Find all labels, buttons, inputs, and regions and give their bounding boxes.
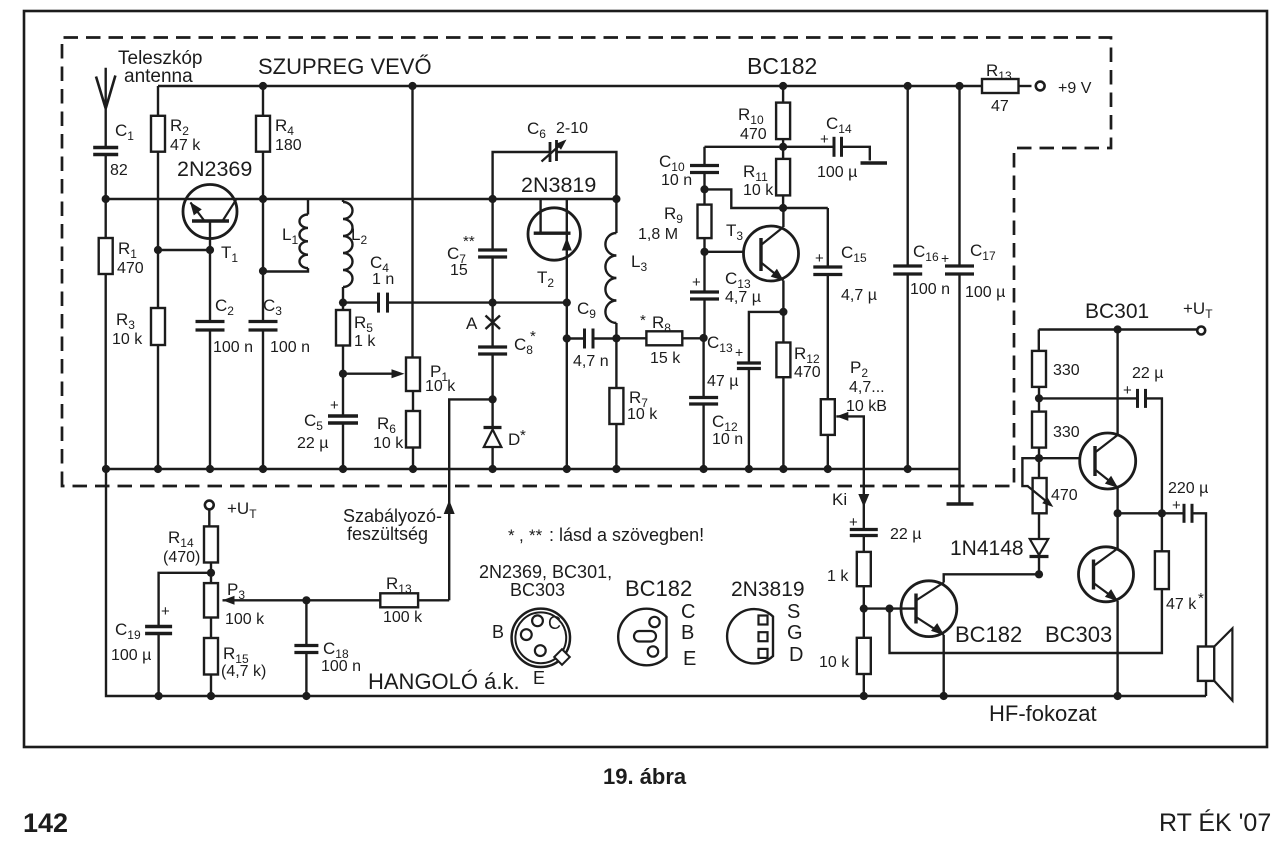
svg-text:*: *	[520, 427, 526, 444]
svg-text:S: S	[787, 601, 800, 623]
svg-text:100 n: 100 n	[213, 339, 253, 356]
svg-text:R13: R13	[386, 574, 412, 596]
ground rail	[106, 468, 960, 470]
node collector/R4	[259, 195, 267, 203]
svg-text:10 k: 10 k	[627, 406, 658, 423]
capacitor C12	[702, 338, 704, 398]
capacitor C5	[342, 374, 344, 416]
resistor R12	[776, 343, 790, 378]
wire output to 220u	[1118, 512, 1184, 514]
svg-text:22 µ: 22 µ	[1132, 365, 1163, 382]
svg-text:R13: R13	[986, 61, 1012, 83]
node rail/R10	[779, 82, 787, 90]
trimmer C6	[549, 142, 552, 162]
node base/feedback	[885, 605, 893, 613]
svg-text:82: 82	[110, 162, 128, 179]
svg-text:47 k: 47 k	[170, 137, 201, 154]
node ground rail x748	[745, 465, 753, 473]
node drain/L3	[612, 195, 620, 203]
svg-text:100 n: 100 n	[910, 281, 950, 298]
resistor 47k feedback	[890, 589, 1162, 653]
capacitor C18	[305, 600, 307, 645]
svg-text:**: **	[463, 233, 475, 250]
svg-text:P2: P2	[850, 358, 868, 380]
svg-text:4,7...: 4,7...	[849, 379, 885, 396]
node gate rail/C7	[489, 195, 497, 203]
svg-text:10 n: 10 n	[712, 431, 743, 448]
node output	[1114, 509, 1122, 517]
svg-text:HANGOLÓ á.k.: HANGOLÓ á.k.	[368, 669, 520, 694]
svg-text:Szabályozó-: Szabályozó-	[343, 506, 442, 526]
svg-text:1 k: 1 k	[354, 333, 376, 350]
arrow Ki output	[858, 494, 869, 507]
svg-text:C19: C19	[115, 620, 141, 642]
arrow regen up	[444, 500, 455, 514]
svg-text:C16: C16	[913, 242, 939, 264]
wire C10 top link	[705, 146, 784, 148]
svg-text:+UT: +UT	[227, 499, 257, 521]
svg-text:2N3819: 2N3819	[521, 173, 596, 197]
svg-text:R2: R2	[170, 116, 189, 138]
svg-text:470: 470	[794, 364, 821, 381]
terminal +UT right	[1197, 327, 1205, 335]
transistor T1 2N2369	[183, 185, 237, 239]
wire to C19	[159, 573, 211, 627]
svg-text:A: A	[466, 314, 478, 333]
svg-text:BC182: BC182	[955, 622, 1022, 647]
node ground rail x703	[700, 465, 708, 473]
svg-text:47 µ: 47 µ	[707, 373, 738, 390]
svg-text:1,8 M: 1,8 M	[638, 226, 678, 243]
svg-text:+9 V: +9 V	[1058, 80, 1092, 97]
wire P2 ground	[827, 435, 829, 469]
svg-text:220 µ: 220 µ	[1168, 480, 1208, 497]
resistor R10	[776, 103, 790, 140]
pinout BC182 case	[618, 609, 666, 666]
svg-text:*: *	[508, 526, 515, 545]
transistor BC182 driver	[901, 581, 957, 637]
node R8/C13/C12	[700, 334, 708, 342]
trimmer 470	[1038, 458, 1040, 478]
wire C15 to P2	[827, 275, 829, 400]
wire regen feed	[449, 399, 492, 600]
transistor BC301	[1080, 433, 1136, 489]
svg-text:10 kB: 10 kB	[846, 398, 887, 415]
svg-text:C3: C3	[263, 296, 282, 318]
svg-text:470: 470	[740, 126, 767, 143]
pinout 2N3819 case	[727, 609, 773, 663]
wire bottom rail	[106, 469, 1206, 696]
svg-text:E: E	[683, 648, 696, 670]
svg-text:2N2369: 2N2369	[177, 157, 252, 181]
svg-text:C10: C10	[659, 152, 685, 174]
svg-text:10 k: 10 k	[743, 182, 774, 199]
node R5/C5/wiper	[339, 370, 347, 378]
resistor R1	[104, 199, 106, 238]
node L3/R7/R8	[612, 334, 620, 342]
wire P1 wiper	[343, 373, 398, 375]
wire P3 wiper line	[223, 599, 381, 601]
node bottom rail R15	[207, 692, 215, 700]
svg-text:P3: P3	[227, 580, 245, 602]
svg-text:SZUPREG VEVŐ: SZUPREG VEVŐ	[258, 54, 432, 79]
svg-text:C6: C6	[527, 119, 546, 141]
svg-text:BC182: BC182	[625, 576, 692, 601]
svg-text:470: 470	[1051, 487, 1078, 504]
node rail/P1 feed	[408, 82, 416, 90]
node L2/R5	[339, 299, 347, 307]
svg-text:*: *	[640, 312, 646, 329]
resistor R13b 100k	[380, 593, 418, 607]
resistor R4	[262, 86, 264, 116]
node tank/C7	[489, 299, 497, 307]
transistor T2 JFET	[528, 208, 580, 260]
svg-text:4,7 µ: 4,7 µ	[841, 287, 877, 304]
capacitor C1	[93, 146, 118, 149]
svg-text:+: +	[692, 274, 701, 291]
wire +UT rail	[1039, 328, 1197, 330]
svg-text:10 k: 10 k	[112, 331, 143, 348]
svg-text:100 k: 100 k	[225, 611, 265, 628]
resistor R3	[151, 308, 165, 345]
svg-text:*: *	[1198, 590, 1204, 607]
svg-text:Ki: Ki	[832, 490, 847, 509]
capacitor C7	[491, 199, 493, 250]
wire P2 wiper Ki	[836, 416, 864, 529]
node A marker	[486, 316, 501, 330]
transistor BC303	[1079, 547, 1134, 602]
resistor R8	[616, 337, 646, 339]
node R10/R11/C14	[779, 143, 787, 151]
node T1 base	[206, 246, 214, 254]
wire driver emitter	[943, 635, 945, 696]
svg-text:R14: R14	[168, 528, 194, 550]
resistor 330 upper	[1038, 330, 1040, 351]
svg-text:1N4148: 1N4148	[950, 537, 1024, 560]
svg-text:,: ,	[519, 526, 524, 545]
svg-text:R1: R1	[118, 239, 137, 261]
wire T3 collector	[782, 208, 784, 227]
svg-text:330: 330	[1053, 362, 1080, 379]
svg-text:B: B	[681, 622, 694, 644]
potentiometer P1	[406, 358, 420, 392]
capacitor C13 4.7u	[703, 299, 705, 338]
resistor R7	[615, 338, 617, 388]
svg-text:15 k: 15 k	[650, 350, 681, 367]
svg-text:+: +	[735, 344, 743, 360]
node 1k/10k/base	[860, 605, 868, 613]
svg-text:T2: T2	[537, 268, 554, 290]
wire bootstrap right	[1146, 398, 1162, 513]
node C8/D/regen	[489, 395, 497, 403]
capacitor C4	[377, 293, 380, 313]
wire C7-C8	[491, 303, 493, 347]
svg-text:100 n: 100 n	[321, 658, 361, 675]
capacitor C17	[958, 86, 960, 266]
svg-text:(4,7 k): (4,7 k)	[221, 663, 266, 680]
inductor L1	[307, 199, 309, 215]
svg-text:B: B	[492, 622, 504, 642]
svg-text:R6: R6	[377, 414, 396, 436]
node bottom rail BC303 emitter	[1114, 692, 1122, 700]
svg-text:2N2369, BC301,: 2N2369, BC301,	[479, 562, 612, 582]
svg-text:T3: T3	[726, 221, 743, 243]
svg-text:+: +	[1123, 382, 1132, 399]
wire C6 loop	[493, 152, 549, 199]
svg-text:10 k: 10 k	[373, 435, 404, 452]
svg-text:22 µ: 22 µ	[297, 435, 328, 452]
node rail/C16	[904, 82, 912, 90]
node bottom rail drv emitter	[940, 692, 948, 700]
svg-text:D: D	[789, 644, 803, 666]
capacitor C10	[703, 173, 705, 205]
svg-text:T1: T1	[221, 243, 238, 265]
svg-text:BC182: BC182	[747, 53, 817, 79]
resistor R 10k out	[863, 609, 865, 638]
pinout TO-18 case	[512, 609, 570, 667]
node emitter/C13b	[779, 308, 787, 316]
svg-text:C13: C13	[707, 333, 733, 355]
svg-text:15: 15	[450, 262, 468, 279]
capacitor 220u	[1183, 504, 1186, 523]
svg-text:100 k: 100 k	[383, 609, 423, 626]
capacitor C13b 47u	[749, 312, 784, 363]
svg-text:R3: R3	[116, 310, 135, 332]
wire collector to C15	[783, 207, 828, 209]
terminal +9V	[1036, 82, 1045, 91]
capacitor C14	[783, 146, 834, 148]
node ground rail x907	[904, 465, 912, 473]
svg-text:+: +	[161, 603, 170, 620]
svg-text:+: +	[815, 250, 824, 267]
svg-text:10 k: 10 k	[819, 654, 850, 671]
node rail/R4	[259, 82, 267, 90]
svg-text:C2: C2	[215, 296, 234, 318]
svg-text:feszültség: feszültség	[347, 524, 428, 544]
svg-text:C13: C13	[725, 269, 751, 291]
svg-text:L3: L3	[631, 252, 647, 274]
svg-text:G: G	[787, 622, 803, 644]
svg-text:180: 180	[275, 137, 302, 154]
svg-text:C: C	[548, 613, 561, 633]
node bias/trimmer	[1035, 454, 1043, 462]
node ground rail x413	[409, 465, 417, 473]
node rail/BC301 collector	[1114, 325, 1122, 333]
transistor T3 BC182	[744, 226, 799, 281]
wire T3 emitter	[782, 281, 784, 343]
wire T3 base	[705, 251, 762, 253]
diode D*	[491, 399, 493, 428]
svg-text:470: 470	[117, 260, 144, 277]
resistor R5	[342, 303, 344, 310]
wire bootstrap	[1039, 397, 1137, 399]
resistor R14	[208, 510, 210, 527]
svg-text:R5: R5	[354, 313, 373, 335]
inductor L3	[615, 199, 617, 233]
svg-text:C5: C5	[304, 411, 323, 433]
svg-text:BC303: BC303	[1045, 622, 1112, 647]
svg-text:C17: C17	[970, 241, 996, 263]
svg-text:E: E	[533, 668, 545, 688]
svg-text:10 k: 10 k	[425, 378, 456, 395]
svg-text:C14: C14	[826, 114, 852, 136]
node R11/T3 collector	[779, 204, 787, 212]
svg-text:D: D	[508, 430, 520, 449]
node ground rail x616	[612, 465, 620, 473]
dashed RF-section boundary box	[62, 38, 1111, 487]
wire base	[158, 249, 210, 251]
svg-text:+: +	[820, 131, 829, 148]
capacitor C19	[145, 625, 172, 628]
svg-text:+: +	[849, 514, 858, 531]
wire emitter line	[106, 198, 184, 200]
terminal +UT left	[205, 501, 214, 510]
svg-text:1 n: 1 n	[372, 271, 394, 288]
wire BC301 emitter	[1116, 488, 1118, 549]
node R9/base/C13	[700, 248, 708, 256]
node L1 return	[259, 267, 267, 275]
svg-text:L2: L2	[351, 225, 367, 247]
resistor 330 lower	[1038, 398, 1040, 411]
resistor R6	[412, 391, 414, 411]
wire C9 link	[567, 337, 584, 339]
svg-text:2N3819: 2N3819	[731, 578, 805, 601]
svg-text:(470): (470)	[163, 549, 200, 566]
svg-text:100 µ: 100 µ	[111, 647, 151, 664]
svg-text:+: +	[941, 250, 949, 266]
wire BC301 base	[1039, 457, 1094, 459]
svg-text:BC301: BC301	[1085, 300, 1149, 323]
resistor R 1k	[857, 552, 871, 586]
resistor R2	[157, 86, 159, 116]
ground after C14	[842, 147, 870, 161]
svg-text:antenna: antenna	[124, 66, 193, 87]
node ground rail x492	[489, 465, 497, 473]
node 330/330/22u	[1035, 394, 1043, 402]
svg-text:330: 330	[1053, 424, 1080, 441]
node source/C9	[563, 334, 571, 342]
resistor R11	[782, 147, 784, 159]
node ground rail x343	[339, 465, 347, 473]
node C10/R9	[700, 185, 708, 193]
wire +9V to P1	[411, 86, 413, 358]
node ground rail x566	[563, 465, 571, 473]
wire BC301 collector	[1116, 330, 1118, 436]
svg-text:2-10: 2-10	[556, 120, 588, 137]
potentiometer P2	[821, 399, 835, 435]
svg-text:100 n: 100 n	[270, 339, 310, 356]
wire C10 to R11 foot	[705, 189, 784, 208]
svg-text:R9: R9	[664, 204, 683, 226]
wire tank line	[343, 301, 379, 303]
svg-text:100 µ: 100 µ	[817, 164, 857, 181]
node output/47k	[1158, 509, 1166, 517]
svg-text:*: *	[530, 328, 536, 345]
wire driver base	[864, 607, 916, 609]
capacitor C15	[827, 208, 829, 267]
svg-text:R8: R8	[652, 313, 671, 335]
capacitor C 22u out	[850, 528, 878, 531]
svg-text:+UT: +UT	[1183, 299, 1213, 321]
svg-text:+: +	[1172, 497, 1181, 514]
wire T2 source	[566, 303, 568, 469]
node ground rail x827	[824, 465, 832, 473]
node bottom rail C18	[302, 692, 310, 700]
svg-text:RT ÉK '07: RT ÉK '07	[1159, 808, 1271, 837]
wire R10 top	[782, 86, 784, 103]
svg-text:L1: L1	[282, 225, 298, 247]
svg-text:C9: C9	[577, 299, 596, 321]
svg-text:R4: R4	[275, 116, 294, 138]
node bottom rail 10k	[860, 692, 868, 700]
svg-text:100 µ: 100 µ	[965, 284, 1005, 301]
capacitor C9	[583, 329, 586, 349]
node bottom rail C19	[155, 692, 163, 700]
svg-text:C15: C15	[841, 243, 867, 265]
node R14/P3/C19	[207, 569, 215, 577]
node diode/driver/BC303	[1035, 570, 1043, 578]
svg-text:+: +	[330, 397, 339, 414]
speaker	[1198, 647, 1214, 681]
svg-text:: lásd a szövegben!: : lásd a szövegben!	[549, 525, 704, 545]
svg-text:R12: R12	[794, 344, 820, 366]
svg-text:10 n: 10 n	[661, 172, 692, 189]
diode 1N4148	[1038, 513, 1040, 539]
svg-text:**: **	[529, 526, 543, 545]
svg-text:1 k: 1 k	[827, 568, 849, 585]
wire driver collector	[944, 574, 1039, 582]
node ground rail x263	[259, 465, 267, 473]
svg-text:C: C	[681, 601, 695, 623]
svg-text:C1: C1	[115, 121, 134, 143]
node ground rail x210	[206, 465, 214, 473]
svg-text:4,7 n: 4,7 n	[573, 353, 609, 370]
svg-text:142: 142	[23, 808, 68, 838]
wire C1 to node	[104, 155, 106, 200]
capacitor C16	[907, 86, 909, 266]
wire collector rail	[237, 198, 617, 200]
resistor R13	[981, 85, 983, 87]
wire +9V top rail	[158, 85, 982, 87]
svg-text:22 µ: 22 µ	[890, 526, 921, 543]
ground symbol main	[958, 469, 960, 504]
wire BC303 emitter	[1116, 601, 1118, 696]
svg-text:BC303: BC303	[510, 580, 565, 600]
capacitor C2	[196, 320, 225, 323]
antenna	[104, 68, 106, 147]
resistor R15	[210, 618, 212, 639]
node ground rail x783	[779, 465, 787, 473]
svg-text:47: 47	[991, 98, 1009, 115]
svg-text:4,7 µ: 4,7 µ	[725, 289, 761, 306]
node antenna/emitter	[102, 195, 110, 203]
capacitor 22u bootstrap	[1136, 389, 1139, 408]
svg-text:19. ábra: 19. ábra	[603, 764, 687, 789]
svg-text:HF-fokozat: HF-fokozat	[989, 701, 1097, 726]
node tank/T2 source	[563, 299, 571, 307]
wire 220u to speaker	[1192, 513, 1206, 646]
wire R2-R3	[157, 152, 159, 308]
capacitor C8	[478, 345, 507, 348]
node ground rail x106	[102, 465, 110, 473]
node ground rail x158	[154, 465, 162, 473]
node wiper/C18	[302, 596, 310, 604]
svg-text:47 k: 47 k	[1166, 596, 1197, 613]
wire R4-C3	[262, 152, 264, 322]
potentiometer P3	[210, 573, 212, 583]
node rail/C17	[955, 82, 963, 90]
svg-text:R11: R11	[743, 162, 768, 184]
